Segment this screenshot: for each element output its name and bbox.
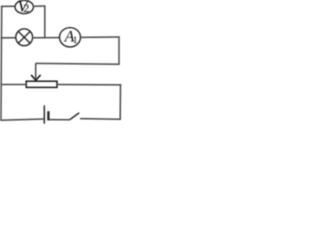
svg-text:1: 1 (73, 36, 78, 46)
wire: battery to switch (49, 119, 70, 121)
wire: far right vertical (rheostat down to battery row) (119, 84, 121, 120)
wire: lamp to ammeter (33, 37, 60, 39)
wire: ammeter to right corner (80, 36, 119, 38)
wire: second row, left lead to lamp (1, 37, 16, 39)
wire: bottom row left (corner to battery) (0, 119, 44, 120)
wire: top row left (to voltmeter) (1, 5, 16, 7)
battery cell: long plate (positive) (43, 105, 45, 123)
wire: bottom row right (switch to corner) (80, 118, 121, 121)
ammeter A1 (60, 28, 81, 47)
voltmeter V2 (15, 0, 33, 13)
lamp L (circle with X) (16, 29, 33, 46)
wire: rheostat right lead (57, 84, 121, 86)
svg-text:2: 2 (23, 1, 29, 15)
wire: top row right (voltmeter to corner) (33, 5, 45, 7)
battery cell: short plate (negative) (47, 111, 49, 120)
wire: voltmeter branch vertical drop (44, 6, 46, 39)
wire: right vertical (ammeter row down to slider wire) (118, 36, 120, 64)
switch S lever (open) (70, 113, 80, 120)
wire: slider feed horizontal (36, 62, 120, 65)
wire: rheostat left lead (1, 84, 27, 86)
rheostat slider arrow (35, 63, 37, 78)
rheostat body R (26, 81, 57, 87)
wire: left vertical bus (0, 6, 3, 120)
